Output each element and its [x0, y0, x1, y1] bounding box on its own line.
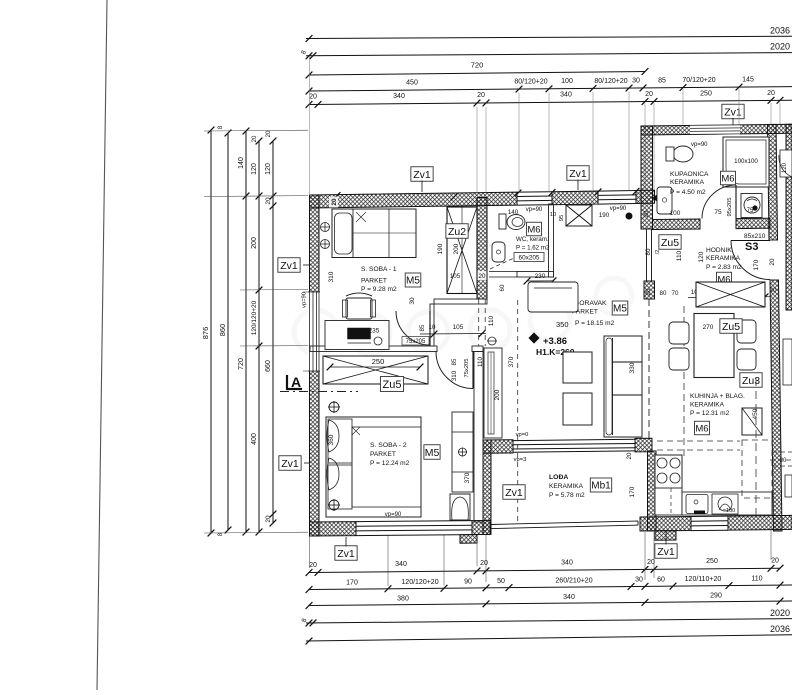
svg-text:30: 30	[409, 297, 416, 305]
dimension chain 120/200/400 left	[258, 141, 260, 532]
svg-text:M6: M6	[721, 173, 734, 184]
desk bedroom1	[325, 321, 389, 350]
window bathroom top wall	[690, 125, 740, 135]
svg-text:Zv1: Zv1	[413, 169, 431, 181]
dining table	[694, 314, 734, 378]
svg-text:P = 2.83 m2: P = 2.83 m2	[706, 264, 742, 271]
window left wall Zv1	[308, 292, 320, 371]
bed headboard lamps bedroom1	[321, 223, 330, 232]
label Zu3 kitchen	[740, 373, 762, 388]
wall bathroom bottom / hodnik top	[653, 219, 701, 230]
svg-text:M6: M6	[695, 423, 708, 434]
wardrobe hodnik	[696, 282, 765, 307]
svg-text:20: 20	[626, 452, 633, 459]
svg-text:vp=90: vp=90	[610, 206, 627, 212]
svg-text:2036: 2036	[770, 624, 790, 634]
svg-text:80: 80	[645, 248, 652, 255]
svg-text:75x205: 75x205	[406, 339, 426, 345]
svg-text:140: 140	[238, 157, 245, 169]
svg-text:270: 270	[703, 324, 714, 331]
window top wall 2	[598, 191, 636, 205]
svg-text:S3: S3	[745, 241, 758, 253]
svg-text:20: 20	[265, 197, 272, 205]
svg-text:20: 20	[644, 210, 650, 217]
svg-text:Zv1: Zv1	[280, 260, 298, 272]
svg-text:340: 340	[561, 560, 573, 567]
svg-text:720: 720	[471, 61, 484, 70]
outer wall right	[768, 124, 778, 240]
svg-text:LOĐA: LOĐA	[549, 474, 568, 481]
loggia sliding door	[513, 439, 635, 452]
stove kitchen	[655, 455, 682, 488]
neighbor wall right top	[786, 124, 792, 310]
label M6 hodnik	[716, 272, 731, 286]
svg-text:2036: 2036	[770, 26, 790, 36]
svg-text:Zu5: Zu5	[383, 379, 402, 391]
outer wall left	[310, 195, 320, 292]
section marker A	[287, 375, 302, 389]
chair dining right 1	[737, 320, 756, 343]
glazed partition hodnik west	[646, 229, 648, 281]
svg-text:30: 30	[635, 577, 643, 584]
door bedroom1	[396, 311, 430, 345]
label M5 bedroom2	[424, 445, 440, 460]
svg-text:20: 20	[645, 91, 653, 98]
door bedroom2	[436, 352, 473, 389]
svg-text:190: 190	[437, 243, 444, 254]
label Zu5 hodnik	[659, 235, 681, 250]
label Zv1 above wall east window	[567, 166, 589, 181]
svg-text:250: 250	[372, 357, 385, 366]
svg-text:Mb1: Mb1	[591, 481, 611, 492]
svg-text:20: 20	[767, 90, 775, 97]
kitchen counter	[655, 455, 682, 515]
dim 230 living	[527, 280, 553, 282]
svg-text:170: 170	[629, 486, 636, 497]
dimension line 720 top	[309, 72, 645, 76]
faint watermark	[294, 278, 632, 354]
wall WC east	[549, 204, 554, 277]
svg-text:450: 450	[752, 408, 759, 419]
level mark living	[529, 333, 539, 343]
svg-text:110: 110	[751, 576, 762, 583]
svg-text:120/120+20: 120/120+20	[251, 300, 258, 335]
loggia top wall / living south wall	[483, 440, 513, 454]
extension lines left	[204, 129, 308, 132]
label M5 bedroom1	[405, 273, 421, 287]
counter bottom kitchen	[682, 492, 772, 515]
svg-text:75: 75	[714, 209, 722, 216]
loggia right wall / kitchen west wall	[648, 451, 657, 531]
svg-text:120: 120	[265, 163, 272, 175]
wardrobe Zu5 bedroom2	[323, 356, 428, 384]
extension lines top	[518, 93, 520, 193]
svg-text:S. SOBA - 2: S. SOBA - 2	[370, 442, 407, 449]
label Zv1 loggia	[503, 485, 525, 500]
svg-text:70: 70	[672, 290, 679, 297]
svg-text:60x205: 60x205	[519, 255, 540, 262]
label Zv1 bottom left	[335, 546, 357, 561]
svg-text:100x100: 100x100	[734, 158, 758, 165]
svg-text:KUPAONICA: KUPAONICA	[670, 171, 709, 178]
label M6 bathroom	[720, 171, 735, 185]
coffee table 2 living	[563, 393, 592, 425]
svg-text:S. SOBA - 1: S. SOBA - 1	[361, 266, 397, 273]
label Zu2	[446, 224, 468, 239]
svg-text:85: 85	[419, 324, 426, 331]
outer wall top main	[310, 192, 518, 208]
label Zv1 left lower	[279, 456, 301, 471]
svg-text:P = 12.24 m2: P = 12.24 m2	[370, 460, 410, 467]
svg-text:M5: M5	[406, 276, 420, 287]
dimension chain 120/20/660/20 left	[272, 141, 274, 523]
svg-text:KERAMIKA: KERAMIKA	[670, 179, 705, 186]
svg-text:90: 90	[464, 578, 472, 585]
svg-text:400: 400	[251, 433, 258, 445]
label M6 kitchen	[694, 421, 709, 435]
kitchen wall corner stub below	[655, 531, 676, 541]
corridor dimension line	[420, 333, 486, 336]
svg-text:170: 170	[346, 580, 358, 587]
kitchen left wall lower	[648, 299, 650, 440]
small sink niche bathroom	[741, 194, 762, 218]
svg-text:340: 340	[563, 594, 575, 601]
dimension chain bottom 380/340/290	[309, 601, 792, 606]
neighbor door arc top right	[779, 155, 792, 177]
svg-text:80: 80	[660, 290, 667, 297]
svg-text:Zv1: Zv1	[281, 458, 299, 470]
svg-text:KERAMIKA: KERAMIKA	[549, 483, 584, 490]
svg-text:20: 20	[252, 135, 258, 142]
dimension chain 876 left	[210, 130, 212, 533]
svg-text:vp=90: vp=90	[526, 207, 543, 213]
svg-text:30: 30	[632, 78, 640, 85]
svg-text:vp=3: vp=3	[514, 457, 527, 463]
svg-text:370: 370	[508, 356, 515, 367]
svg-text:20: 20	[646, 288, 652, 295]
label M6 WC	[526, 222, 541, 236]
svg-text:235: 235	[369, 328, 380, 335]
svg-text:250: 250	[700, 90, 712, 97]
bed bedroom1	[332, 209, 416, 258]
svg-text:P = 12.31 m2: P = 12.31 m2	[690, 410, 730, 417]
wall bathroom left	[641, 126, 653, 229]
dimension chain 140/720 left	[245, 131, 247, 532]
svg-text:20: 20	[771, 558, 779, 565]
svg-text:370: 370	[464, 472, 471, 483]
svg-text:20: 20	[770, 287, 777, 294]
svg-text:10: 10	[429, 324, 436, 331]
svg-text:85: 85	[658, 77, 666, 84]
svg-text:145: 145	[742, 77, 754, 84]
svg-text:PARKET: PARKET	[361, 278, 387, 285]
loggia left wall	[483, 440, 491, 535]
svg-text:340: 340	[393, 93, 405, 100]
svg-text:20: 20	[769, 258, 776, 265]
dimension chain top windows	[309, 87, 792, 91]
svg-text:200: 200	[494, 389, 501, 400]
label Zu5 kitchen	[720, 319, 742, 334]
entry door opening right wall	[769, 240, 779, 280]
loggia railing bottom	[490, 521, 638, 525]
svg-text:2020: 2020	[770, 42, 790, 52]
svg-text:20: 20	[780, 458, 787, 464]
sofa living	[604, 336, 642, 437]
svg-text:140: 140	[508, 209, 519, 216]
dimension chain 860 left	[227, 133, 229, 530]
label Zu5 bedroom2	[380, 377, 403, 392]
chair dining left 2	[669, 348, 689, 370]
svg-text:876: 876	[201, 327, 210, 340]
svg-text:80/120+20: 80/120+20	[514, 79, 547, 86]
page left edge line	[97, 0, 107, 690]
svg-text:PARKET: PARKET	[370, 451, 396, 458]
chair dining right 2	[737, 349, 756, 370]
wall stub living-kitchen	[644, 281, 655, 299]
radiator living west	[484, 348, 502, 438]
upper cabinets dashed kitchen	[742, 440, 772, 498]
svg-text:85: 85	[451, 358, 458, 365]
svg-text:Zv1: Zv1	[569, 168, 587, 180]
svg-text:200: 200	[453, 243, 460, 254]
dim 250 wardrobe	[330, 366, 420, 368]
svg-text:120: 120	[782, 162, 788, 173]
living dashed ceiling line	[517, 300, 519, 521]
wall WC south	[517, 272, 554, 278]
svg-text:660: 660	[265, 360, 272, 372]
svg-text:170: 170	[753, 259, 760, 270]
svg-text:60: 60	[657, 577, 665, 584]
svg-text:360: 360	[328, 434, 335, 445]
label Zv1 top	[722, 104, 744, 119]
dimension chain bottom 20/340	[309, 568, 780, 572]
svg-text:60: 60	[499, 284, 506, 291]
partition bedroom2 east	[474, 352, 483, 523]
outer wall bathroom top	[641, 124, 792, 135]
svg-text:20: 20	[480, 560, 488, 567]
outer wall bottom kitchen	[640, 517, 691, 532]
svg-text:860: 860	[218, 324, 227, 337]
svg-text:250: 250	[706, 558, 718, 565]
svg-text:75: 75	[747, 208, 754, 214]
svg-text:380: 380	[397, 596, 409, 603]
label Zv1 left upper	[278, 258, 300, 273]
wall bedroom1 south / corridor	[434, 299, 487, 304]
svg-text:100: 100	[670, 210, 681, 217]
chair dining left 1	[669, 322, 689, 344]
wall bedroom1 door jamb	[430, 304, 434, 346]
svg-text:80/120+20: 80/120+20	[594, 78, 627, 85]
svg-text:75x205: 75x205	[464, 358, 470, 377]
svg-text:M5: M5	[425, 447, 440, 459]
toilet WC	[499, 214, 506, 229]
svg-text:310: 310	[328, 271, 335, 282]
label Zv1 above wall west window	[411, 167, 433, 182]
svg-text:KERAMIKA: KERAMIKA	[690, 402, 725, 409]
svg-text:450: 450	[406, 80, 418, 87]
svg-text:20: 20	[309, 562, 317, 569]
chair bedroom1	[346, 298, 372, 319]
svg-text:120: 120	[698, 251, 705, 262]
shaft with cross top wall	[566, 205, 592, 226]
door entry S3	[731, 241, 770, 280]
svg-text:340: 340	[395, 561, 407, 568]
washbasin WC	[492, 242, 505, 262]
svg-text:100: 100	[561, 78, 573, 85]
outer wall bottom bedroom2	[310, 522, 357, 536]
label M5 living	[612, 301, 628, 315]
svg-text:50: 50	[497, 578, 505, 585]
svg-text:vp=90: vp=90	[302, 292, 308, 308]
svg-text:105: 105	[453, 324, 464, 331]
washbasin bathroom	[657, 187, 672, 214]
svg-text:A: A	[291, 374, 301, 390]
svg-text:20: 20	[331, 198, 338, 206]
dimension line 2036 bottom	[306, 635, 792, 641]
window top wall 1	[517, 192, 552, 205]
svg-text:WC, keram.: WC, keram.	[516, 236, 549, 243]
dimension chain top 20/340	[309, 100, 792, 104]
window kitchen bottom wall	[691, 516, 728, 531]
wall bedroom2 top	[310, 346, 437, 352]
svg-text:Zv1: Zv1	[505, 487, 523, 499]
coffee table 1 living	[563, 352, 592, 383]
svg-text:720: 720	[238, 358, 245, 370]
toilet bathroom	[673, 146, 693, 162]
svg-text:105: 105	[450, 273, 461, 280]
extension lines bottom	[309, 536, 311, 568]
svg-text:P = 1.62 m2: P = 1.62 m2	[516, 245, 550, 252]
dimension line 2036 top	[306, 36, 792, 38]
svg-text:330: 330	[629, 362, 636, 373]
svg-text:P = 5.78 m2: P = 5.78 m2	[549, 492, 585, 499]
svg-text:/2: /2	[655, 250, 661, 255]
corridor dashed opening	[478, 299, 480, 346]
svg-text:Zv1: Zv1	[724, 106, 742, 118]
dishwasher kitchen	[712, 494, 738, 514]
section dashed line A	[280, 391, 358, 393]
svg-text:M5: M5	[613, 304, 627, 315]
svg-text:KUHINJA + BLAG.: KUHINJA + BLAG.	[690, 393, 745, 400]
label Mb1 loggia	[590, 478, 611, 492]
svg-text:vp=90: vp=90	[691, 142, 708, 148]
shower bathroom	[723, 137, 769, 187]
svg-text:95: 95	[559, 215, 565, 221]
door bathroom	[702, 185, 736, 219]
svg-text:95x205: 95x205	[727, 197, 733, 216]
lamp symbols bedroom2	[329, 402, 339, 412]
label Zv1 bottom right	[655, 544, 677, 559]
svg-text:Zu5: Zu5	[661, 237, 679, 249]
svg-text:Zu3: Zu3	[742, 375, 760, 387]
svg-text:190: 190	[599, 212, 610, 219]
svg-text:Zu5: Zu5	[722, 321, 740, 333]
bench bedroom2 southeast	[450, 494, 470, 520]
cabinet bedroom2 east	[452, 412, 473, 492]
wardrobe Zu2 column	[447, 207, 477, 294]
svg-text:20: 20	[266, 130, 272, 137]
svg-text:=100: =100	[723, 508, 735, 514]
sink kitchen	[686, 495, 708, 514]
svg-text:HODNIK: HODNIK	[706, 247, 732, 254]
svg-text:350: 350	[556, 320, 569, 329]
svg-text:M6: M6	[527, 224, 540, 235]
fridge kitchen	[742, 408, 762, 435]
svg-text:vp=90: vp=90	[385, 512, 402, 518]
neighbor fixtures right	[780, 150, 792, 177]
svg-text:85x210: 85x210	[744, 233, 766, 240]
svg-text:P = 18.15 m2: P = 18.15 m2	[575, 320, 615, 327]
svg-text:110: 110	[676, 250, 683, 261]
bedroom2 wall corner stub below	[460, 535, 477, 544]
svg-text:10: 10	[550, 212, 556, 218]
svg-text:Zv1: Zv1	[657, 546, 675, 558]
window bedroom2 bottom wall	[356, 521, 472, 536]
svg-text:20: 20	[309, 94, 317, 101]
svg-text:70/120+20: 70/120+20	[682, 77, 715, 84]
svg-text:260/210+20: 260/210+20	[555, 577, 592, 584]
svg-text:20: 20	[477, 92, 485, 99]
pillows bedroom2	[327, 420, 339, 452]
svg-text:+3.86: +3.86	[543, 336, 567, 347]
svg-text:110: 110	[488, 315, 495, 326]
svg-text:2020: 2020	[770, 608, 790, 618]
wall WC west	[477, 197, 487, 299]
svg-text:310: 310	[451, 370, 458, 381]
svg-text:20: 20	[265, 515, 272, 523]
tv cabinet living	[528, 282, 578, 312]
svg-text:340: 340	[560, 92, 572, 99]
dimension line 2020 top	[306, 53, 792, 56]
svg-text:120: 120	[251, 163, 258, 175]
bed bedroom2	[326, 417, 421, 517]
svg-text:230: 230	[535, 273, 546, 280]
dimension chain bottom windows	[309, 585, 792, 590]
door WC	[489, 271, 517, 273]
svg-text:20: 20	[479, 273, 486, 280]
neighbor dashed marks right edge	[772, 451, 792, 453]
dimension line 2020 bottom	[306, 619, 792, 623]
svg-text:200: 200	[251, 237, 258, 249]
svg-text:P = 4.50 m2: P = 4.50 m2	[670, 189, 706, 196]
svg-text:120/120+20: 120/120+20	[401, 579, 438, 586]
tick and 20 label on top wall	[334, 192, 341, 199]
svg-text:Zu2: Zu2	[448, 226, 466, 238]
svg-text:110: 110	[477, 357, 484, 367]
svg-text:Zv1: Zv1	[337, 548, 355, 560]
svg-text:P = 9.28 m2: P = 9.28 m2	[361, 286, 397, 293]
svg-text:290: 290	[710, 593, 722, 600]
svg-text:120/110+20: 120/110+20	[685, 576, 722, 583]
